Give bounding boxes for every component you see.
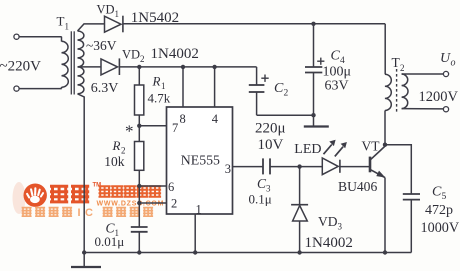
resistor R2	[135, 126, 144, 186]
svg-text:C: C	[331, 49, 341, 64]
label VT	[362, 139, 381, 154]
pin 1	[196, 203, 202, 217]
ground symbol	[71, 253, 101, 268]
svg-text:1000V: 1000V	[421, 220, 460, 236]
diode VD1	[105, 16, 123, 33]
svg-text:1: 1	[161, 81, 166, 91]
label C1	[106, 221, 120, 239]
label C4	[331, 49, 346, 67]
svg-text:o: o	[451, 58, 456, 69]
label T1	[57, 14, 70, 32]
svg-text:~36V: ~36V	[86, 38, 117, 53]
node C1 bottom	[137, 250, 141, 254]
transformer T1 core	[71, 31, 74, 94]
watermark www.dzsc.com url	[97, 201, 165, 208]
svg-text:0.1μ: 0.1μ	[249, 191, 272, 206]
node pin4 rail	[212, 65, 216, 69]
svg-text:10k: 10k	[104, 154, 125, 169]
svg-text:1: 1	[65, 22, 70, 32]
wire T2 secondary bottom lead	[402, 108, 444, 110]
watermark TM	[93, 183, 102, 189]
svg-text:1200V: 1200V	[419, 89, 459, 105]
wire T1 primary top lead	[19, 37, 62, 42]
svg-text:4.7k: 4.7k	[148, 91, 171, 106]
svg-text:R: R	[152, 74, 161, 89]
label 472p	[425, 203, 453, 218]
terminal output top	[443, 71, 448, 76]
svg-text:C: C	[274, 81, 284, 96]
wire top rail VD1 to T2	[123, 23, 385, 25]
label 220u	[255, 121, 286, 137]
wire to pin 7	[139, 125, 166, 127]
svg-text:BU406: BU406	[338, 179, 377, 194]
watermark 电子市场网 text	[99, 185, 162, 197]
pin 6	[168, 180, 174, 194]
wire pin 3 to C3	[233, 166, 264, 168]
label VD2	[122, 48, 145, 65]
diode VD3	[291, 205, 308, 253]
ground below C4	[304, 125, 329, 127]
label 1N5402	[131, 10, 179, 26]
label C4 plus	[317, 58, 324, 65]
svg-text:63V: 63V	[325, 79, 349, 94]
wire to pin 2	[139, 202, 166, 204]
svg-text:3: 3	[338, 222, 343, 232]
svg-text:220μ: 220μ	[255, 121, 286, 137]
wire T2 top feed	[384, 24, 386, 74]
svg-text:IC: IC	[78, 207, 98, 219]
transistor Q1 BU406	[370, 146, 385, 252]
svg-text:472p: 472p	[425, 203, 453, 218]
capacitor C5	[403, 194, 420, 253]
label 1000V	[421, 220, 460, 236]
terminal AC input top	[14, 34, 19, 39]
wire junction to LED	[300, 166, 323, 168]
label Uo	[440, 51, 456, 69]
transformer T1 secondary winding	[78, 31, 84, 94]
wire T1 primary bottom lead	[19, 87, 62, 89]
node pin6 junction	[137, 184, 141, 188]
node LED VD3 junction	[297, 164, 301, 168]
svg-text:C: C	[432, 185, 442, 200]
svg-text:100μ: 100μ	[323, 65, 352, 80]
wire T2 secondary top lead	[402, 73, 444, 75]
label ~220V	[0, 59, 41, 75]
transformer T1 primary winding	[62, 41, 69, 87]
label 100u	[323, 65, 352, 80]
svg-text:VD: VD	[318, 214, 338, 229]
label 10k	[104, 154, 125, 169]
svg-text:7: 7	[172, 121, 178, 135]
wire R2 line down	[138, 186, 140, 203]
node VD3 bottom	[297, 250, 301, 254]
wire junction to VD3	[299, 167, 301, 205]
label 10V	[258, 137, 284, 153]
svg-text:10V: 10V	[258, 137, 284, 153]
label 4.7k	[148, 91, 171, 106]
pin 3	[225, 162, 231, 176]
svg-text:LED: LED	[294, 142, 321, 157]
label R1	[152, 74, 166, 92]
label 63V	[325, 79, 349, 94]
diode VD2	[101, 58, 119, 75]
wire top rail to C4	[313, 24, 315, 67]
svg-text:0.01μ: 0.01μ	[95, 234, 125, 249]
label 1N4002 lower	[305, 235, 353, 251]
svg-text:6: 6	[168, 180, 174, 194]
svg-text:8: 8	[180, 112, 186, 126]
wire pin 1 to ground rail	[194, 214, 196, 253]
label VD3	[318, 214, 343, 232]
label 0.1u	[249, 191, 272, 206]
watermark logo circle	[24, 184, 47, 207]
resistor R1	[135, 67, 144, 126]
LED arrows	[324, 140, 347, 157]
transformer T2 primary winding	[385, 74, 391, 110]
capacitor C4	[305, 67, 322, 126]
svg-text:U: U	[440, 51, 451, 66]
LED diode	[322, 158, 340, 175]
capacitor C3	[263, 158, 300, 174]
node C2 C4 junction	[311, 113, 315, 117]
wire T1 secondary mid tap	[78, 66, 102, 68]
svg-text:~220V: ~220V	[0, 59, 41, 75]
pin 4	[212, 67, 219, 126]
svg-text:VD: VD	[97, 3, 115, 17]
wire collector junction vertical	[384, 111, 386, 145]
label 1200V	[419, 89, 459, 105]
label C2	[274, 81, 289, 99]
svg-text:*: *	[125, 122, 134, 141]
label BU406	[338, 179, 377, 194]
watermark pink smear left edge	[13, 182, 26, 214]
label R2	[112, 138, 126, 156]
svg-text:WWW.DZSC.COM: WWW.DZSC.COM	[97, 201, 165, 208]
transformer T2 secondary winding	[402, 74, 408, 109]
pin 2	[171, 197, 177, 211]
node pin8 rail	[181, 65, 185, 69]
pin 7	[172, 121, 178, 135]
wire T1 secondary bottom to ground rail	[78, 94, 85, 253]
wire rail to C2	[256, 67, 258, 85]
svg-text:1N4002: 1N4002	[151, 46, 199, 62]
wire LED to base	[340, 166, 369, 168]
svg-text:1: 1	[115, 9, 120, 19]
svg-text:VD: VD	[122, 48, 140, 62]
op-amp U1 NE555 box	[167, 107, 233, 214]
label T2	[392, 55, 405, 73]
label asterisk	[125, 122, 134, 141]
svg-text:2: 2	[284, 89, 289, 99]
transformer T2 core dashed	[396, 69, 398, 113]
node R1 top	[137, 65, 141, 69]
svg-text:2: 2	[400, 63, 405, 73]
svg-text:NE555: NE555	[181, 153, 220, 168]
node rail left	[82, 250, 86, 254]
label 0.01u	[95, 234, 125, 249]
label C3	[257, 176, 271, 194]
svg-text:1N4002: 1N4002	[305, 235, 353, 251]
label VD1	[97, 3, 120, 20]
watermark line2 全球最大IC采购网站	[22, 207, 154, 219]
terminal AC input bottom	[14, 86, 19, 91]
capacitor C2	[249, 85, 314, 115]
watermark 维库 text	[50, 185, 89, 203]
node emitter bottom	[383, 250, 387, 254]
wire VD2 rail	[119, 66, 256, 68]
label 1N4002	[151, 46, 199, 62]
svg-text:5: 5	[442, 192, 447, 202]
wire ground rail	[84, 252, 411, 254]
wire T1 secondary top tap to VD1	[78, 24, 105, 31]
svg-text:R: R	[112, 138, 121, 153]
svg-text:2: 2	[171, 197, 177, 211]
svg-text:2: 2	[140, 54, 145, 64]
capacitor C1	[131, 203, 148, 253]
svg-text:6.3V: 6.3V	[91, 81, 119, 96]
svg-text:T: T	[57, 14, 65, 29]
wire collector to C5 top	[385, 145, 411, 194]
label LED	[294, 142, 321, 157]
node pin1 bottom	[193, 250, 197, 254]
node pin2 junction	[137, 201, 141, 205]
label ~36V	[86, 38, 117, 53]
node C4 top junction	[311, 22, 315, 26]
label C5	[432, 185, 447, 203]
node star junction	[137, 124, 141, 128]
pin 8	[180, 67, 186, 126]
svg-text:1: 1	[196, 203, 202, 217]
svg-text:VT: VT	[362, 139, 381, 154]
node collector junction	[383, 143, 387, 147]
svg-text:4: 4	[212, 112, 219, 126]
wire to pin 6	[139, 185, 166, 187]
label 6.3V	[91, 81, 119, 96]
label C2 plus	[261, 75, 268, 82]
svg-text:3: 3	[225, 162, 231, 176]
terminal output bottom	[443, 107, 448, 112]
